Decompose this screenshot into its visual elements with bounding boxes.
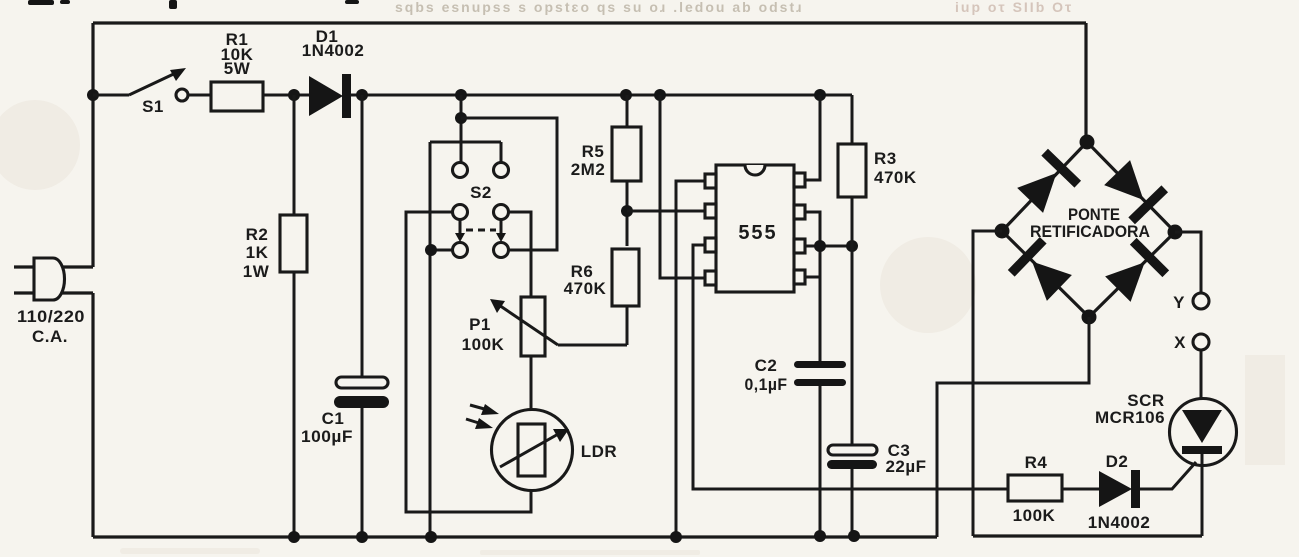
node S2 feed tap — [455, 89, 467, 101]
resistor R2 — [243, 215, 307, 281]
svg-text:2M2: 2M2 — [571, 160, 606, 179]
node ground C3 — [848, 530, 860, 542]
wire R4 to D2 — [1062, 488, 1099, 491]
node pin6/R3 — [846, 240, 858, 252]
svg-text:1N4002: 1N4002 — [302, 41, 365, 60]
node bridge right — [1168, 225, 1183, 240]
svg-text:R5: R5 — [582, 142, 605, 161]
wire bottom rail right section — [973, 534, 1202, 537]
diode bridge top-right — [1101, 157, 1168, 225]
wire S2 left rail — [429, 142, 432, 537]
wire S2 middle-left to LDR bottom — [406, 212, 531, 512]
capacitor C2 — [745, 356, 847, 394]
node ground R2 — [288, 531, 300, 543]
node ground S2 rail — [425, 531, 437, 543]
bridge rectifier — [995, 135, 1183, 325]
svg-text:1W: 1W — [243, 262, 270, 281]
SCR MCR106 — [1095, 391, 1237, 536]
svg-text:RETIFICADORA: RETIFICADORA — [1030, 222, 1150, 241]
wire pin4 feed — [660, 95, 707, 278]
diode bridge bottom-left — [1008, 237, 1076, 304]
terminal Y — [1173, 293, 1209, 312]
wire C1 column — [361, 95, 364, 537]
svg-text:1K: 1K — [246, 243, 269, 262]
svg-text:X: X — [1174, 333, 1186, 352]
node R5/R6 junction — [621, 205, 633, 217]
potentiometer P1 — [462, 297, 627, 356]
svg-text:R4: R4 — [1025, 453, 1048, 472]
node 555 pin8 tap — [814, 89, 826, 101]
wire bridge right to Y — [1175, 232, 1201, 293]
svg-text:D2: D2 — [1106, 452, 1129, 471]
svg-text:R3: R3 — [874, 149, 897, 168]
wire R5 top stub — [626, 95, 629, 127]
LDR — [466, 404, 617, 491]
resistor R5 — [571, 127, 641, 181]
svg-text:470K: 470K — [564, 279, 607, 298]
terminal X — [1174, 333, 1209, 352]
node ground C1 — [356, 531, 368, 543]
wire R1 to D1 — [263, 94, 309, 97]
svg-text:110/220: 110/220 — [17, 307, 85, 326]
svg-text:R2: R2 — [246, 225, 269, 244]
ghost text top — [395, 0, 1073, 15]
diode bridge top-left — [1014, 149, 1081, 217]
wire R3 top stub — [851, 95, 854, 144]
svg-text:555: 555 — [738, 222, 777, 244]
diode D2 — [1088, 452, 1151, 532]
wire S1 lead — [93, 94, 129, 97]
node pin4 feed tap — [654, 89, 666, 101]
capacitor C1 — [301, 377, 389, 446]
node bridge left — [995, 224, 1010, 239]
resistor R4 — [1008, 453, 1062, 525]
wire S2 bracket — [430, 142, 501, 163]
wire S1 to R1 — [188, 94, 211, 97]
svg-text:MCR106: MCR106 — [1095, 408, 1165, 427]
wire D2 to SCR gate — [1140, 462, 1196, 489]
wire left vertical lower (plug bottom prong to bottom rail) — [91, 293, 94, 537]
wire S2 branch to right leg — [461, 118, 557, 250]
svg-text:LDR: LDR — [581, 442, 617, 461]
wire junction to 555 pin2 — [627, 210, 707, 213]
node R2 tap — [288, 89, 300, 101]
node bridge bottom — [1082, 310, 1097, 325]
wire 555 pin1 to ground — [676, 181, 707, 537]
IC 555 — [705, 165, 805, 292]
wire top rail — [93, 21, 1086, 24]
resistor R3 — [838, 144, 917, 197]
resistor R6 — [564, 249, 639, 306]
svg-text:100K: 100K — [1013, 506, 1056, 525]
svg-text:S2: S2 — [470, 183, 492, 202]
wire pin7 to C2 column — [805, 212, 820, 537]
wire R2 column — [293, 95, 296, 537]
resistor R1 — [211, 30, 263, 111]
wire left vertical upper (top rail to plug top prong) — [91, 23, 94, 267]
wire right feed to bridge top — [1084, 23, 1087, 142]
node bridge top — [1080, 135, 1095, 150]
svg-text:Y: Y — [1173, 293, 1185, 312]
wire 555 pin3 to R4 — [693, 245, 1008, 489]
diode bridge bottom-right — [1102, 238, 1170, 306]
wire bridge left to bottom rail right — [973, 231, 1002, 536]
svg-text:0,1µF: 0,1µF — [745, 375, 788, 394]
svg-text:C.A.: C.A. — [32, 327, 68, 346]
svg-text:22µF: 22µF — [885, 457, 926, 476]
plug 110/220 C.A. — [14, 258, 93, 346]
svg-text:100K: 100K — [462, 335, 505, 354]
node S2 branch — [455, 112, 467, 124]
wire S2 middle-right to P1 — [509, 212, 531, 297]
svg-text:iup oτ SIIb Oτ: iup oτ SIIb Oτ — [955, 0, 1073, 15]
wire R5-R6 link — [626, 181, 629, 246]
svg-text:5W: 5W — [224, 59, 251, 78]
node ground pin1 — [670, 531, 682, 543]
dark fragments top edge — [28, 0, 359, 9]
wire bridge bottom to left ground rail — [937, 317, 1089, 537]
svg-text:470K: 470K — [874, 168, 917, 187]
svg-text:C2: C2 — [755, 356, 778, 375]
wire R6 bottom to wiper — [626, 306, 629, 345]
node pin6/C2 — [814, 240, 826, 252]
node R5 tap — [620, 89, 632, 101]
svg-text:C1: C1 — [322, 409, 345, 428]
node C1 tap — [356, 89, 368, 101]
diode D1 — [302, 27, 365, 118]
svg-text:P1: P1 — [469, 315, 491, 334]
node S2 bottom-left — [425, 244, 437, 256]
wire main horizontal after D1 — [350, 94, 852, 97]
wire pin8 to top rail — [805, 95, 820, 180]
node ground C2 — [814, 530, 826, 542]
switch S1 — [129, 68, 188, 116]
wire bottom rail left section — [93, 535, 937, 538]
svg-text:S1: S1 — [142, 97, 164, 116]
wire P1 to LDR — [530, 356, 533, 424]
svg-text:1N4002: 1N4002 — [1088, 513, 1151, 532]
node S1 feed — [87, 89, 99, 101]
capacitor C3 — [827, 441, 927, 476]
wire pin6 row — [805, 245, 852, 248]
switch S2 — [453, 163, 509, 258]
wire R3 to C3 — [851, 197, 854, 537]
wire X to SCR anode — [1200, 350, 1203, 410]
svg-text:sqbs esnupss s opstɛo qs s: sqbs esnupss s opstɛo qs su oɹ .ledou ab… — [395, 0, 804, 15]
wire S2 feed vertical — [460, 95, 463, 163]
svg-text:100µF: 100µF — [301, 427, 353, 446]
wire pin2 stub — [805, 276, 820, 279]
wire S2 bottom-left stub — [430, 249, 453, 252]
